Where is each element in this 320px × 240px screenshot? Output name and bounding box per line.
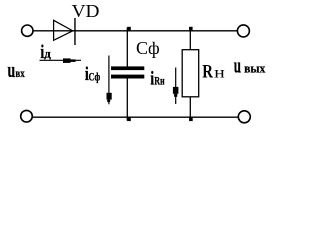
svg-text:u: u <box>7 58 15 83</box>
svg-text:u: u <box>234 53 241 77</box>
svg-text:вх: вх <box>15 68 25 80</box>
svg-text:д: д <box>44 47 51 60</box>
svg-text:Сф: Сф <box>89 71 101 84</box>
svg-text:R: R <box>202 61 213 82</box>
svg-text:н: н <box>214 63 225 81</box>
svg-text:вых: вых <box>244 61 266 76</box>
svg-text:Сф: Сф <box>136 38 160 58</box>
svg-text:Rн: Rн <box>154 75 165 88</box>
svg-text:VD: VD <box>72 2 100 21</box>
